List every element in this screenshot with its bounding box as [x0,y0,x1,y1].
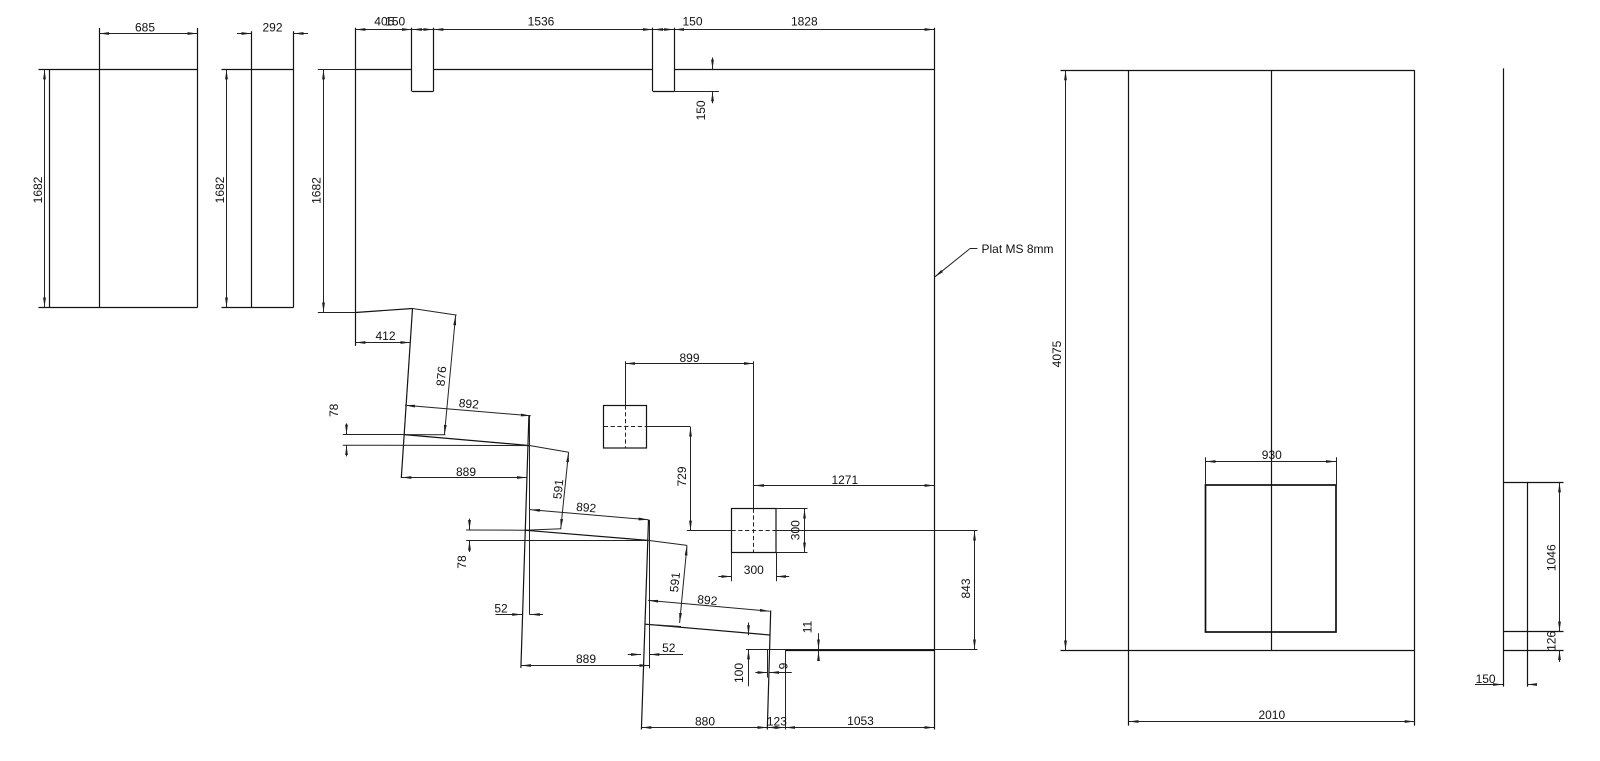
plate bottom right edge [785,650,934,652]
step2 riser line [521,416,529,668]
dim 889 step2 [521,652,649,666]
step3 tread edge [645,624,770,635]
step3 riser line [641,520,648,730]
dim 889 step1 [401,465,527,479]
bottom dim 123 [767,714,787,728]
dim 729 [675,427,691,531]
ext 591b top [648,540,687,545]
bottom dim 1053 [785,714,934,728]
dim 150 slot depth [694,58,712,121]
top dim chain 1828 [674,15,934,30]
step2 riser ext vertical [529,416,531,615]
leader Plat MS 8mm [934,242,1053,277]
second view rect outline [222,31,294,307]
svg-text:100: 100 [732,663,746,683]
step1 tread ext [343,434,404,436]
svg-text:892: 892 [458,396,479,412]
dim 300 horizontal [718,563,789,577]
dim 78 step1 [327,403,347,456]
svg-text:52: 52 [662,641,676,655]
ext 591a top [530,446,568,453]
svg-text:123: 123 [767,714,787,728]
step3 riser ext vertical [649,520,651,669]
svg-text:1682: 1682 [310,177,324,204]
top dim chain 405 [355,15,412,30]
svg-text:876: 876 [434,365,450,386]
dim 892 step1 [405,396,531,416]
step1 tread edge [404,435,530,446]
svg-text:150: 150 [682,15,702,29]
svg-text:1682: 1682 [31,176,45,203]
square 899 centerline horizontal [604,426,691,428]
dim 9 [755,662,792,672]
svg-text:1536: 1536 [528,15,555,29]
dim 412 [355,329,410,343]
left view rect outline [39,28,198,308]
plate top edge [355,69,934,71]
slot 2 [653,28,719,92]
dim 52 step3 [628,641,683,655]
dim 1271 [754,473,935,487]
svg-text:11: 11 [801,620,815,633]
square 899 centerline vertical [625,361,627,448]
dim 843 [959,531,974,650]
dim 300 vertical [788,509,804,553]
dim 899 [625,351,754,365]
square 300 outline [732,509,777,553]
side view top tick [1503,482,1563,484]
svg-text:300: 300 [744,563,764,577]
svg-text:4075: 4075 [1050,340,1064,367]
side view main line [1503,68,1505,686]
bottom edge ext line [746,649,978,651]
dim 685 [99,20,197,34]
dim 1682 left view [31,69,45,307]
svg-text:1682: 1682 [213,176,227,203]
side view mid line [1503,631,1563,633]
right view outline [1061,70,1415,725]
square 899 outline [604,406,647,449]
dim 4075 [1050,70,1066,650]
svg-text:78: 78 [455,555,469,569]
step1 top edge [355,309,412,313]
step2 tread edge [524,530,648,540]
dim 52 step2 [494,601,543,615]
svg-text:1271: 1271 [831,473,858,487]
dim 876 [404,309,457,435]
svg-text:889: 889 [456,465,476,479]
ext 300 vertical dim [776,509,808,553]
dim 100 [732,623,748,687]
svg-text:591: 591 [550,478,566,500]
ext 591a bottom [524,529,561,530]
square 300 centerline vertical [753,361,755,552]
square 300 centerline horizontal [687,530,978,532]
svg-text:729: 729 [675,466,689,486]
svg-text:591: 591 [667,571,683,593]
dim 150 side [1475,672,1537,686]
dim 1682 main [310,69,356,312]
svg-text:292: 292 [262,20,282,34]
ext 123 right [785,651,787,730]
svg-text:1828: 1828 [791,15,818,29]
dim 591 step2 [550,452,568,529]
top dim chain 150a [412,29,434,31]
ext 591b bottom [645,624,681,626]
plate right edge [934,28,936,730]
dim 892 step2 [530,500,649,520]
inner box dim exts [1206,457,1337,485]
dim 2010 [1129,708,1415,722]
svg-text:126: 126 [1545,631,1559,651]
step1 riser 876 line [401,309,412,478]
slot 1 [412,28,434,92]
step1 tread lower line [343,444,530,446]
side view bottom line [1503,650,1563,652]
dim 292 [237,20,308,34]
svg-text:52: 52 [494,601,508,615]
dim 591 step3 [667,545,687,623]
plate left edge [355,28,357,346]
vert ext for dim 9 [767,650,769,678]
svg-text:150: 150 [385,15,405,29]
svg-text:685: 685 [135,20,155,34]
dim 1682 second view [213,69,227,307]
top dim chain 150b [653,15,703,30]
side view right line [1527,482,1529,686]
svg-text:150: 150 [694,100,708,120]
svg-text:300: 300 [788,520,802,540]
svg-text:1053: 1053 [847,714,874,728]
inner box 930 [1206,485,1337,632]
dim 126 [1545,631,1560,662]
ext 300 horizontal dim [732,552,777,581]
svg-text:889: 889 [576,652,596,666]
svg-text:892: 892 [576,500,597,516]
svg-text:150: 150 [1476,672,1496,686]
svg-text:Plat MS 8mm: Plat MS 8mm [982,242,1054,256]
svg-text:899: 899 [679,351,699,365]
step2 tread lower line [466,540,648,542]
svg-text:412: 412 [375,329,395,343]
dim 892 step3 [648,592,770,611]
dim 11 [801,620,819,661]
svg-text:2010: 2010 [1258,708,1285,722]
dim 930 [1206,448,1337,462]
svg-text:880: 880 [695,714,715,728]
svg-text:930: 930 [1262,448,1282,462]
dim 1046 [1544,482,1559,631]
svg-text:78: 78 [327,403,341,417]
bottom dim 880 [641,714,767,728]
dim 78 step2 [455,519,470,569]
svg-text:892: 892 [697,592,719,608]
svg-text:1046: 1046 [1544,544,1558,571]
top dim chain 1536 [433,15,653,30]
svg-text:9: 9 [776,662,790,669]
final riser line [767,611,770,730]
step2 tread ext [466,529,524,531]
svg-text:843: 843 [959,578,973,598]
right view center line [1271,70,1273,650]
